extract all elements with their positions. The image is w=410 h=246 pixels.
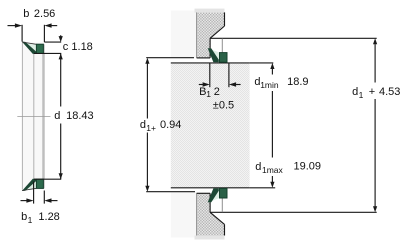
seal bottom profile	[22, 179, 61, 191]
housing bottom right edge	[224, 224, 226, 235]
lip band top (dark green)	[22, 42, 36, 54]
wire: outer surface	[43, 44, 45, 188]
B1 ext line left	[209, 63, 211, 87]
housing bottom cut fade	[195, 236, 225, 240]
bottom surface line	[34, 52, 61, 54]
shaft bottom edge	[171, 187, 250, 189]
wire: lip hinge surface	[33, 54, 35, 180]
svg-text:d: d	[352, 86, 358, 98]
lip band bottom (dark green)	[22, 179, 36, 191]
b1 ext line left	[33, 182, 35, 204]
housing bar right edge	[209, 38, 211, 58]
seal top (right figure)	[208, 48, 227, 62]
block	[220, 53, 228, 63]
arrowhead down	[145, 186, 149, 192]
svg-text:d: d	[54, 110, 60, 122]
b arrow right	[51, 25, 57, 27]
groove bottom line	[210, 211, 377, 213]
housing bottom	[197, 193, 225, 235]
svg-text:18.43: 18.43	[66, 110, 94, 122]
leader between d1min and d1max	[271, 91, 273, 158]
d1min leader	[271, 69, 273, 75]
groove inner step line top	[221, 39, 223, 53]
dim line upper	[146, 64, 148, 119]
housing bottom chamfer	[210, 212, 224, 224]
svg-text:b: b	[21, 211, 27, 223]
d arrowhead top (up, shared with c bottom)	[59, 53, 63, 59]
block bottom (green)	[36, 179, 43, 188]
B1 ext line right	[228, 63, 230, 87]
b1 arrowhead left	[26, 198, 33, 202]
dimension d	[60, 53, 62, 179]
seal top profile	[22, 42, 61, 54]
d1max ext line	[250, 187, 276, 189]
c arrowhead top (down)	[59, 36, 63, 42]
svg-text:1.18: 1.18	[71, 41, 92, 53]
dimension B1	[199, 63, 241, 87]
B1 arrow right tail	[235, 84, 240, 86]
B1 arrowhead left	[203, 82, 210, 86]
seal bottom (right figure)	[208, 188, 227, 202]
d arrowhead bottom (down)	[59, 173, 63, 179]
svg-text:±0.5: ±0.5	[213, 100, 234, 112]
b ext line left	[21, 25, 23, 42]
svg-text:1min: 1min	[260, 80, 279, 90]
svg-text:1max: 1max	[262, 165, 284, 175]
b1 arrow right tail	[51, 200, 58, 202]
d line lower segment	[60, 124, 62, 180]
dim line lower	[146, 133, 148, 187]
groove top line	[210, 37, 377, 39]
block top (green)	[36, 44, 43, 53]
node centerline	[17, 116, 50, 118]
b arrowhead left	[15, 23, 22, 27]
B1 arrow left tail	[199, 84, 204, 86]
dimension b	[8, 25, 58, 42]
b ext line right	[43, 25, 45, 42]
wire: inner surface left	[21, 43, 23, 190]
svg-text:1+: 1+	[146, 123, 156, 133]
dark lip	[208, 48, 219, 62]
housing top left edge	[196, 12, 198, 58]
svg-text:2: 2	[214, 86, 220, 98]
svg-text:d: d	[255, 161, 261, 173]
c top ext line	[44, 41, 61, 43]
d line upper segment	[60, 53, 62, 106]
shaft top edge	[171, 62, 250, 64]
svg-text:1.28: 1.28	[38, 211, 59, 223]
dim line upper	[374, 44, 376, 82]
dimension c	[44, 35, 61, 42]
svg-text:18.9: 18.9	[287, 76, 308, 88]
dimension d1 + 4.53	[374, 44, 376, 206]
housing top	[197, 12, 225, 58]
b1 arrow left tail	[21, 200, 28, 202]
b arrowhead right	[44, 23, 51, 27]
shaft	[171, 63, 250, 188]
shaft faint continuation top	[171, 11, 197, 58]
svg-text:c: c	[63, 41, 69, 53]
housing bottom left edge	[196, 193, 198, 235]
housing top chamfer	[210, 26, 224, 38]
ext line top	[146, 57, 194, 59]
arrowhead up	[145, 58, 149, 64]
svg-text:19.09: 19.09	[294, 161, 322, 173]
dark lip	[208, 188, 219, 202]
d1max arrowhead (down)	[270, 182, 274, 188]
svg-text:2.56: 2.56	[34, 8, 55, 20]
housing top right edge	[224, 12, 226, 26]
housing bar bottom right edge	[209, 193, 211, 212]
B1 arrowhead right	[229, 82, 236, 86]
block	[220, 188, 228, 198]
svg-text:+: +	[369, 86, 375, 98]
mint triangle	[210, 49, 220, 62]
arrowhead down	[373, 206, 377, 212]
dimension b1	[21, 182, 58, 204]
b1 arrowhead right	[44, 198, 51, 202]
svg-text:d: d	[140, 119, 146, 131]
wire: block inner edge	[42, 54, 44, 180]
d1min ext line	[250, 62, 274, 64]
mint triangle	[210, 189, 220, 202]
svg-text:b: b	[23, 8, 29, 20]
svg-text:4.53: 4.53	[379, 86, 400, 98]
svg-text:1: 1	[206, 89, 211, 99]
svg-text:1: 1	[28, 215, 33, 225]
mint body triangle bottom	[22, 180, 36, 190]
dimension d1+0.94	[146, 58, 195, 192]
c arrow top tail	[60, 35, 62, 37]
d1max leader	[271, 176, 273, 182]
b1 ext line right	[43, 191, 45, 204]
lip top edge line	[22, 42, 36, 44]
groove inner step line bottom	[221, 198, 223, 212]
housing top cut fade	[195, 9, 225, 13]
d1min arrowhead (up)	[270, 63, 274, 69]
ext line bottom	[146, 191, 195, 193]
top surface line	[34, 178, 61, 180]
b arrow left	[8, 25, 16, 27]
seal body side lines (cylindrical surfaces)	[22, 43, 44, 190]
svg-text:1: 1	[359, 90, 364, 100]
shaft faint continuation bottom	[171, 192, 197, 238]
seal body fill	[22, 43, 44, 190]
lip bottom edge line	[22, 188, 36, 190]
arrowhead up	[373, 38, 377, 44]
housing bar bottom edge	[197, 57, 211, 59]
dim line lower	[374, 99, 376, 207]
housing bar top edge	[197, 192, 211, 194]
svg-text:0.94: 0.94	[160, 119, 181, 131]
mint body triangle top	[22, 42, 36, 52]
